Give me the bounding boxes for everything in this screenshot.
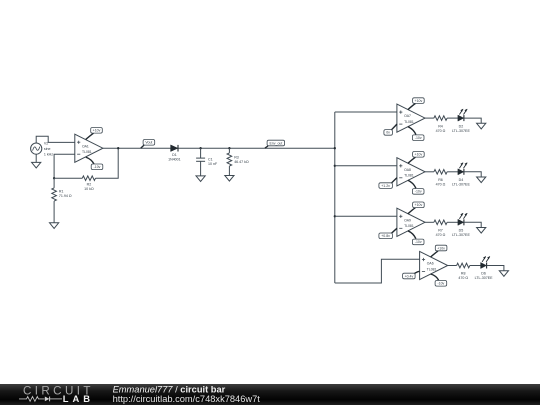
power flag +10v of OA7	[408, 98, 424, 110]
wire R8 to D6	[470, 265, 481, 267]
svg-text:LTL-307EE: LTL-307EE	[475, 276, 494, 280]
net flag +1.2v at OA8 - input	[379, 178, 397, 189]
svg-text:+10v: +10v	[415, 153, 423, 157]
svg-text:10 nF: 10 nF	[208, 162, 218, 166]
capacitor C1	[196, 157, 218, 166]
svg-text:Env_out: Env_out	[269, 141, 282, 145]
svg-text:+0.4v: +0.4v	[405, 274, 414, 278]
svg-text:470 Ω: 470 Ω	[436, 233, 446, 237]
svg-text:D2: D2	[459, 124, 464, 128]
svg-text:R8: R8	[461, 272, 466, 276]
op-amp OA9	[397, 208, 425, 236]
power flag +10v of OA8	[408, 152, 424, 164]
svg-text:+1.2v: +1.2v	[381, 184, 390, 188]
ground after D4	[477, 177, 486, 183]
wire V2 top to OA1 + input	[36, 136, 75, 143]
power flag +10v of OA6	[431, 245, 447, 257]
power flag -10v of OA6	[431, 274, 447, 286]
ground after D6	[499, 271, 508, 277]
svg-text:OA8: OA8	[404, 168, 411, 172]
svg-text:LTL-307EE: LTL-307EE	[452, 233, 471, 237]
power flag +10v of OA1	[86, 128, 102, 140]
wire R1 top	[53, 178, 55, 188]
svg-text:-10v: -10v	[415, 240, 422, 244]
wire OA9 output to R7	[425, 221, 434, 223]
net flag +0.4v at OA6 - input	[403, 271, 420, 278]
op-amp OA7	[397, 104, 425, 132]
power flag +10v of OA9	[408, 202, 424, 214]
net flag Env_out	[265, 140, 285, 148]
net flag 0v at OA7 - input	[384, 124, 397, 135]
svg-text:R2: R2	[87, 182, 92, 186]
svg-text:OA7: OA7	[404, 114, 411, 118]
svg-text:R7: R7	[438, 229, 443, 233]
svg-text:R6: R6	[438, 178, 443, 182]
svg-text:http://circuitlab.com/c748xk78: http://circuitlab.com/c748xk7846w7t	[113, 394, 261, 404]
svg-text:V2: V2	[44, 142, 48, 146]
svg-text:470 Ω: 470 Ω	[436, 183, 446, 187]
svg-text:1 kHz: 1 kHz	[44, 152, 53, 156]
ground under R1	[50, 223, 59, 229]
power flag -10v of OA8	[408, 180, 424, 194]
svg-text:-10v: -10v	[415, 136, 422, 140]
svg-text:R3: R3	[234, 155, 239, 159]
svg-text:470 Ω: 470 Ω	[436, 129, 446, 133]
svg-text:LTL-307EE: LTL-307EE	[452, 183, 471, 187]
svg-text:OA1: OA1	[82, 144, 89, 148]
resistor R6	[434, 170, 447, 187]
footer bar	[0, 384, 540, 405]
svg-text:C1: C1	[208, 157, 213, 161]
wire R4 to D2	[447, 117, 458, 119]
net flag Vout	[141, 140, 155, 149]
node feedback junction	[53, 177, 55, 179]
wire branch to OA6 + input	[335, 259, 420, 283]
svg-text:Vout: Vout	[145, 141, 152, 145]
svg-text:0v: 0v	[386, 131, 390, 135]
LED D5	[452, 213, 471, 237]
op-amp OA6	[420, 251, 448, 279]
svg-text:LAB: LAB	[63, 393, 94, 404]
LED D4	[452, 162, 471, 186]
footer title text	[113, 385, 226, 395]
svg-text:470 Ω: 470 Ω	[458, 276, 468, 280]
wire OA8 output to R6	[425, 171, 434, 173]
resistor R4	[434, 116, 447, 133]
svg-text:LTL-307EE: LTL-307EE	[452, 129, 471, 133]
wire R3 bottom stub	[228, 166, 230, 175]
svg-text:sine: sine	[44, 147, 51, 151]
op-amp OA1	[75, 134, 103, 162]
wire branch to OA8 + input	[335, 165, 397, 167]
svg-text:OA9: OA9	[404, 218, 411, 222]
resistor R2	[82, 176, 95, 191]
wire branch to OA7 + input	[335, 111, 397, 113]
wire R6 to D4	[447, 171, 458, 173]
resistor R8	[457, 263, 470, 280]
svg-text:1N4001: 1N4001	[168, 158, 181, 162]
svg-text:-10v: -10v	[94, 165, 101, 169]
resistor R3	[227, 153, 249, 166]
svg-text:+10v: +10v	[93, 129, 101, 133]
power flag -10v of OA9	[408, 231, 424, 245]
wire D4 to ground	[464, 172, 481, 177]
wire feedback left segment	[54, 177, 82, 179]
svg-text:TL081: TL081	[82, 150, 92, 154]
wire D5 to ground	[464, 222, 481, 227]
wire D2 to ground	[464, 118, 481, 123]
net flag +0.8v at OA9 - input	[379, 228, 397, 238]
node branch OA8	[334, 165, 336, 167]
wire OA1 - input to feedback node	[54, 154, 75, 178]
ground after D5	[477, 228, 486, 234]
svg-text:R4: R4	[438, 124, 443, 128]
svg-text:10 kΩ: 10 kΩ	[84, 187, 94, 191]
ground under C1	[196, 176, 205, 182]
svg-text:46.47 kΩ: 46.47 kΩ	[234, 160, 249, 164]
LED D2	[452, 109, 471, 133]
ground under R3	[225, 176, 234, 182]
resistor R7	[434, 220, 447, 237]
power flag -10v of OA7	[408, 127, 424, 141]
svg-text:TL081: TL081	[404, 224, 414, 228]
resistor R1	[52, 188, 72, 201]
svg-text:D6: D6	[481, 272, 486, 276]
svg-text:+10v: +10v	[437, 246, 445, 250]
voltage source V2	[31, 142, 54, 157]
svg-text:TL081: TL081	[427, 267, 437, 271]
op-amp OA8	[397, 158, 425, 186]
footer url text	[113, 394, 261, 404]
wire OA6 output to R8	[448, 265, 457, 267]
wire V2 bottom to ground	[35, 154, 37, 162]
node C1 tap	[199, 147, 201, 149]
wire C1 top stub	[200, 148, 202, 158]
wire branch to OA9 + input	[335, 215, 397, 217]
wire bus vertical	[334, 112, 336, 283]
LED D6	[475, 256, 494, 280]
svg-text:+10v: +10v	[415, 203, 423, 207]
node OA1 output feedback tap	[117, 147, 119, 149]
svg-text:OA6: OA6	[427, 262, 434, 266]
diode D1	[168, 145, 181, 162]
node bus main junction	[334, 147, 336, 149]
wire C1 bottom stub	[200, 161, 202, 176]
svg-text:D5: D5	[459, 229, 464, 233]
svg-text:D1: D1	[172, 153, 177, 157]
wire R7 to D5	[447, 221, 458, 223]
svg-text:+0.8v: +0.8v	[381, 234, 390, 238]
wire R1 bottom	[53, 201, 55, 223]
svg-text:D4: D4	[459, 178, 464, 182]
ground after D2	[477, 123, 486, 129]
wire R2 to OA1 output node	[96, 148, 119, 178]
svg-text:71.94 Ω: 71.94 Ω	[59, 194, 72, 198]
wire D6 to ground	[487, 266, 504, 271]
svg-text:TL081: TL081	[404, 174, 414, 178]
wire OA7 output to R4	[425, 117, 434, 119]
svg-text:-10v: -10v	[415, 190, 422, 194]
logo CIRCUIT LAB	[19, 385, 94, 404]
ground under V2	[32, 162, 41, 168]
power flag -10v of OA1	[86, 157, 103, 170]
svg-text:TL081: TL081	[404, 120, 414, 124]
node R3 tap	[228, 147, 230, 149]
node branch OA9	[334, 215, 336, 217]
svg-text:R1: R1	[59, 189, 64, 193]
svg-text:+10v: +10v	[415, 99, 423, 103]
wire R3 top stub	[228, 148, 230, 153]
wire OA1 output to bus	[103, 147, 335, 149]
svg-text:-10v: -10v	[437, 282, 444, 286]
